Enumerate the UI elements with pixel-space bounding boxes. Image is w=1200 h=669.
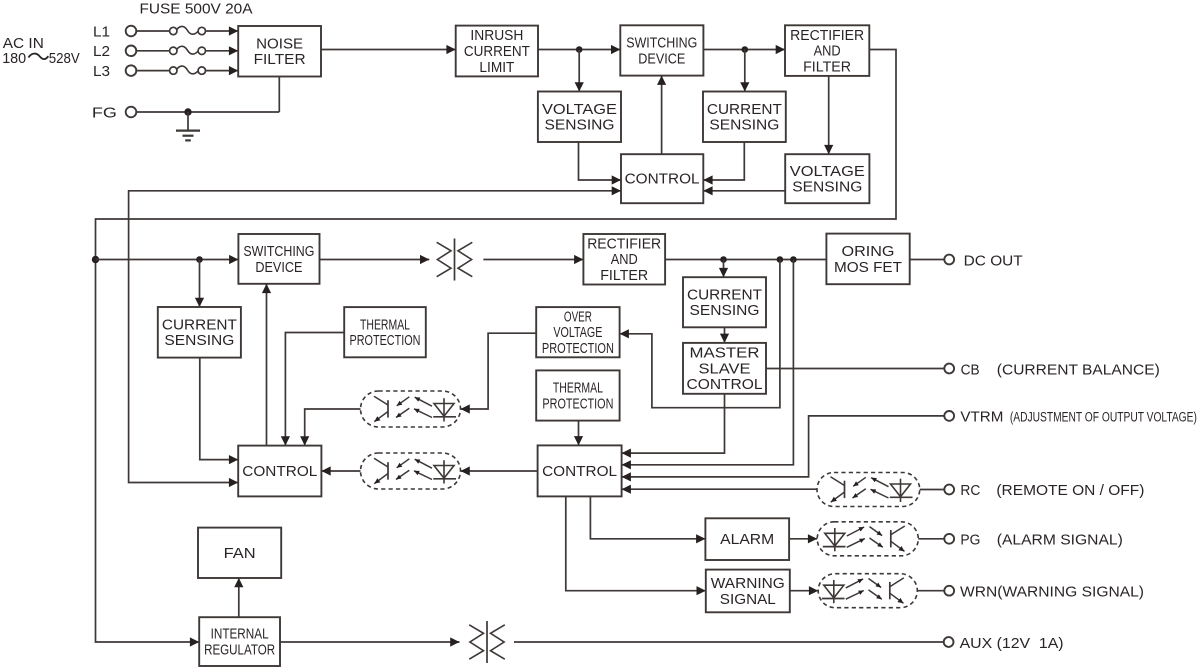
svg-text:RECTIFIER: RECTIFIER [790, 28, 864, 44]
svg-text:SWITCHING: SWITCHING [243, 244, 314, 260]
svg-text:AUX (12V 1A): AUX (12V 1A) [960, 635, 1064, 652]
svg-text:180: 180 [2, 51, 26, 67]
svg-text:ORING: ORING [842, 244, 895, 260]
svg-text:FUSE 500V 20A: FUSE 500V 20A [140, 1, 253, 17]
svg-text:(ADJUSTMENT OF OUTPUT VOLTAGE): (ADJUSTMENT OF OUTPUT VOLTAGE) [1010, 409, 1197, 424]
svg-text:CURRENT: CURRENT [464, 44, 530, 60]
svg-text:L2: L2 [93, 44, 110, 60]
svg-text:PROTECTION: PROTECTION [542, 341, 614, 357]
svg-text:CURRENT: CURRENT [162, 317, 237, 333]
svg-text:RECTIFIER: RECTIFIER [587, 236, 661, 252]
svg-text:CONTROL: CONTROL [542, 464, 617, 480]
svg-text:SENSING: SENSING [792, 180, 862, 196]
svg-text:CONTROL: CONTROL [687, 377, 763, 393]
svg-text:VOLTAGE: VOLTAGE [790, 164, 865, 180]
svg-text:SENSING: SENSING [690, 303, 760, 319]
svg-text:WARNING: WARNING [711, 576, 785, 592]
svg-text:FILTER: FILTER [600, 268, 648, 284]
svg-text:AND: AND [611, 252, 638, 268]
svg-text:SLAVE: SLAVE [699, 361, 751, 377]
svg-text:FILTER: FILTER [254, 52, 306, 68]
svg-text:LIMIT: LIMIT [479, 60, 514, 76]
svg-text:CURRENT: CURRENT [687, 287, 762, 303]
svg-text:PROTECTION: PROTECTION [350, 333, 421, 349]
svg-text:PG: PG [960, 532, 980, 549]
svg-text:(CURRENT BALANCE): (CURRENT BALANCE) [997, 361, 1160, 378]
svg-text:528V: 528V [49, 51, 80, 67]
svg-text:NOISE: NOISE [256, 36, 303, 52]
svg-text:INTERNAL: INTERNAL [211, 627, 269, 643]
svg-text:AND: AND [814, 44, 841, 60]
svg-text:REGULATOR: REGULATOR [204, 643, 275, 659]
svg-text:SENSING: SENSING [545, 118, 615, 134]
svg-text:AC IN: AC IN [3, 36, 44, 52]
svg-text:DEVICE: DEVICE [638, 51, 685, 67]
svg-text:L3: L3 [93, 64, 110, 80]
svg-text:VOLTAGE: VOLTAGE [553, 325, 602, 341]
svg-text:CONTROL: CONTROL [625, 172, 700, 188]
svg-text:SENSING: SENSING [164, 333, 234, 349]
svg-text:RC: RC [960, 482, 980, 499]
svg-text:WRN(WARNING SIGNAL): WRN(WARNING SIGNAL) [960, 584, 1144, 601]
svg-text:CURRENT: CURRENT [707, 102, 782, 118]
svg-text:MOS FET: MOS FET [834, 260, 902, 276]
svg-text:FAN: FAN [224, 546, 256, 562]
svg-text:FILTER: FILTER [803, 59, 851, 75]
svg-text:PROTECTION: PROTECTION [542, 396, 613, 412]
svg-text:(REMOTE ON / OFF): (REMOTE ON / OFF) [996, 482, 1144, 499]
svg-text:OVER: OVER [564, 309, 592, 325]
svg-text:INRUSH: INRUSH [470, 28, 523, 44]
svg-text:(ALARM SIGNAL): (ALARM SIGNAL) [997, 532, 1123, 549]
svg-text:VOLTAGE: VOLTAGE [542, 102, 617, 118]
svg-text:SENSING: SENSING [709, 118, 779, 134]
svg-text:DEVICE: DEVICE [255, 260, 302, 276]
svg-text:SIGNAL: SIGNAL [720, 592, 776, 608]
svg-text:ALARM: ALARM [720, 532, 774, 548]
svg-text:MASTER: MASTER [690, 346, 760, 362]
svg-text:CONTROL: CONTROL [242, 464, 317, 480]
svg-text:THERMAL: THERMAL [360, 317, 410, 333]
svg-text:VTRM: VTRM [960, 409, 1003, 426]
svg-text:DC OUT: DC OUT [964, 252, 1023, 269]
svg-text:SWITCHING: SWITCHING [626, 36, 697, 52]
svg-text:THERMAL: THERMAL [553, 381, 603, 397]
svg-text:CB: CB [961, 361, 980, 378]
svg-text:FG: FG [92, 105, 117, 121]
svg-text:L1: L1 [93, 24, 110, 40]
